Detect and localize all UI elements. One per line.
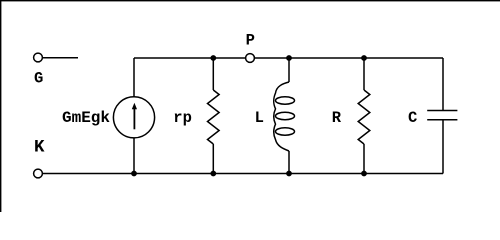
svg-text:K: K xyxy=(34,137,45,157)
junction: R / top rail xyxy=(361,55,367,61)
junction: L / bottom rail xyxy=(286,171,292,177)
wire: current source to bottom rail xyxy=(133,138,135,174)
wire: R to bottom rail xyxy=(363,144,365,174)
svg-text:G: G xyxy=(34,69,43,87)
wire: top rail to L xyxy=(288,58,290,82)
svg-text:C: C xyxy=(408,109,417,127)
wire: top rail to current source xyxy=(133,58,135,97)
wire: rp to bottom rail xyxy=(212,144,214,174)
node P xyxy=(246,54,255,63)
junction: rp / top rail xyxy=(210,55,216,61)
junction: current source / bottom rail xyxy=(131,171,137,177)
junction: L / top rail xyxy=(286,55,292,61)
junction: rp / bottom rail xyxy=(210,171,216,177)
svg-text:rp: rp xyxy=(173,109,192,127)
resistor rp xyxy=(208,90,220,144)
junction: R / bottom rail xyxy=(361,171,367,177)
svg-text:GmEgk: GmEgk xyxy=(62,109,110,127)
svg-text:L: L xyxy=(255,109,264,127)
wire G stub xyxy=(42,57,78,59)
terminal G xyxy=(34,53,43,62)
current source U1 GmEgk xyxy=(113,97,154,138)
svg-text:P: P xyxy=(246,31,255,49)
wire: top rail to R xyxy=(363,58,365,90)
wire: L to bottom rail xyxy=(288,151,290,174)
wire bottom rail xyxy=(42,173,443,175)
wire: top rail to rp xyxy=(212,58,214,90)
terminal K xyxy=(34,169,43,178)
wire top rail xyxy=(134,57,443,59)
svg-text:R: R xyxy=(332,109,342,127)
capacitor C xyxy=(427,111,457,120)
resistor R xyxy=(358,90,370,144)
wire: capacitor C to bottom rail xyxy=(442,120,444,174)
inductor L xyxy=(274,82,295,151)
wire: top rail to capacitor C xyxy=(442,58,444,111)
